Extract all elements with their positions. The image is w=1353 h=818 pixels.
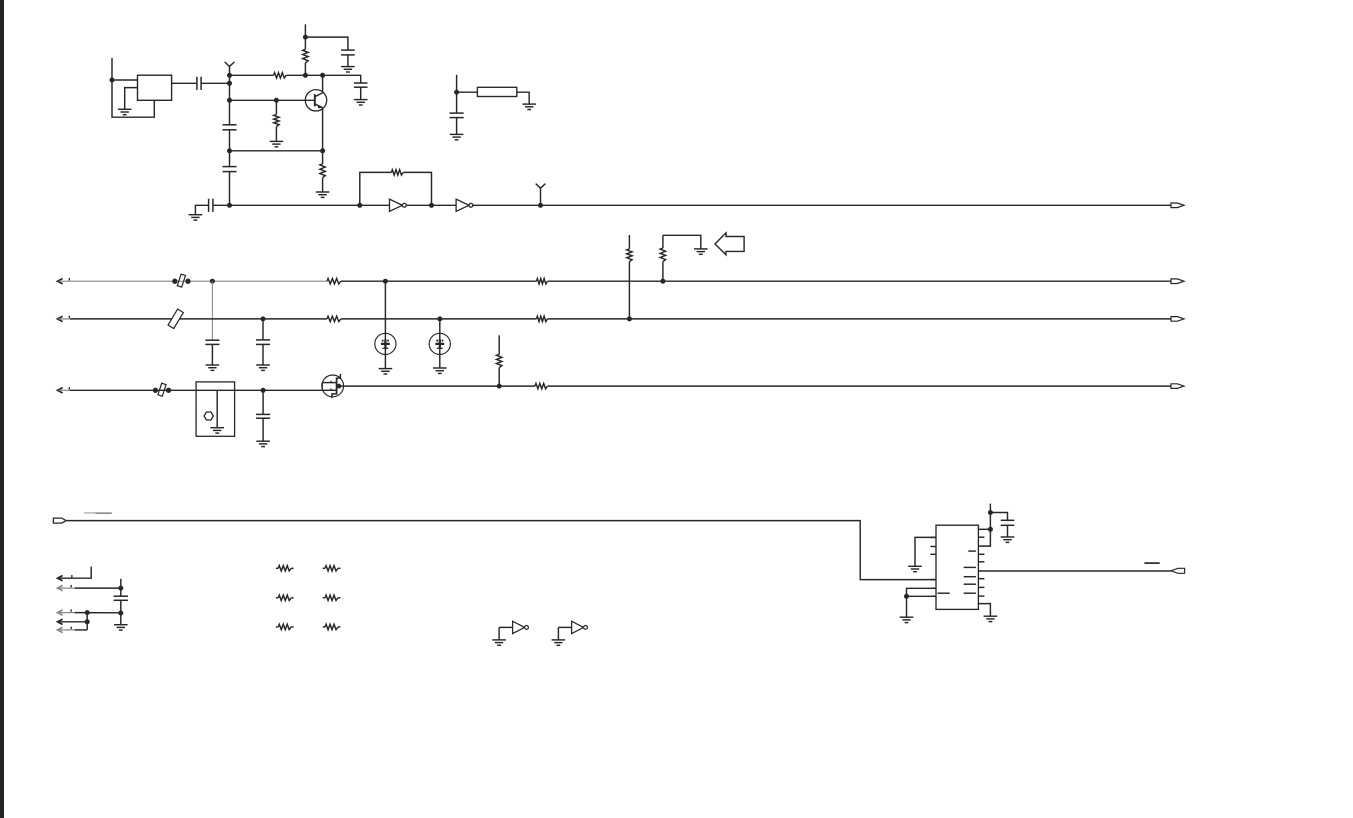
diode CR1 (tilted) bbox=[168, 309, 183, 328]
pin stub bbox=[930, 553, 936, 555]
wire bbox=[120, 600, 122, 624]
connector P6 bbox=[1171, 568, 1185, 573]
ground bbox=[908, 566, 922, 571]
resistor R7 bbox=[627, 249, 632, 262]
pin stub bbox=[930, 546, 936, 548]
connector arrow bbox=[58, 576, 63, 581]
ground bbox=[694, 249, 708, 254]
resistor R16 bbox=[276, 626, 278, 628]
inverter U3A bbox=[492, 640, 506, 645]
wire bbox=[211, 344, 213, 365]
wire bbox=[1007, 525, 1009, 537]
wire bbox=[907, 595, 937, 597]
arrow symbol bbox=[715, 233, 744, 255]
wire bbox=[990, 513, 1007, 521]
wire bbox=[59, 567, 92, 579]
node bbox=[357, 203, 362, 208]
connector P1 bbox=[1171, 203, 1184, 208]
node bbox=[227, 203, 232, 208]
label (greeked) bbox=[84, 512, 95, 514]
node bbox=[627, 316, 632, 321]
wire bbox=[275, 127, 277, 142]
node bbox=[437, 316, 442, 321]
tick mark bbox=[69, 387, 70, 389]
pin marker bbox=[964, 576, 976, 578]
filter FL1 bbox=[477, 87, 516, 96]
wire bbox=[262, 344, 264, 365]
wire bbox=[548, 385, 1171, 387]
resistor R6B bbox=[537, 279, 548, 284]
ground bbox=[256, 365, 270, 370]
wire bbox=[262, 390, 264, 414]
ground bbox=[118, 109, 132, 114]
node bbox=[303, 35, 308, 40]
pin marker bbox=[964, 566, 976, 568]
ground bbox=[522, 104, 536, 109]
wire bbox=[229, 130, 231, 167]
node bbox=[118, 586, 123, 591]
hexagon marker bbox=[204, 412, 213, 420]
pin stub bbox=[978, 561, 984, 563]
connector P5 bbox=[53, 518, 66, 523]
tick mark bbox=[71, 575, 72, 577]
wire bbox=[195, 205, 208, 214]
ground bbox=[341, 67, 355, 72]
inverter U3B bbox=[552, 640, 566, 645]
node bbox=[261, 316, 266, 321]
node bbox=[988, 527, 993, 532]
pin stub bbox=[978, 536, 984, 538]
ground bbox=[450, 134, 464, 139]
ground bbox=[114, 625, 128, 630]
wire bbox=[59, 629, 75, 631]
wire bbox=[323, 75, 361, 83]
wire bbox=[229, 172, 231, 206]
capacitor C4 bbox=[341, 50, 355, 55]
wire bbox=[498, 335, 500, 354]
wire bbox=[67, 521, 936, 580]
wire bbox=[262, 418, 264, 441]
wire bbox=[548, 318, 1172, 320]
connector arrow bbox=[58, 627, 63, 632]
crystal X1 bbox=[138, 75, 172, 100]
ground bbox=[210, 428, 224, 433]
wire bbox=[286, 74, 322, 76]
wire bbox=[406, 204, 456, 206]
connector P4 bbox=[1171, 384, 1184, 389]
connector P3 bbox=[1171, 317, 1184, 322]
wire bbox=[456, 75, 458, 113]
IC U2 body bbox=[936, 525, 978, 609]
ground bbox=[256, 441, 270, 446]
wire bbox=[275, 100, 277, 114]
capacitor C8 bbox=[256, 340, 270, 345]
wire bbox=[59, 621, 88, 623]
capacitor C11 bbox=[114, 596, 128, 600]
pin stub bbox=[930, 579, 936, 581]
wire bbox=[112, 58, 154, 117]
capacitor C10 bbox=[1001, 520, 1015, 525]
ground bbox=[433, 368, 447, 373]
wire bbox=[322, 151, 324, 164]
wire bbox=[498, 368, 500, 387]
node bbox=[227, 148, 232, 153]
transistor Q2 bbox=[322, 375, 344, 397]
resistor R3 bbox=[274, 115, 279, 127]
resistor R14 bbox=[276, 597, 278, 599]
node bbox=[320, 73, 325, 78]
capacitor C3 bbox=[222, 167, 236, 172]
pin marker bbox=[938, 592, 950, 594]
wire bbox=[59, 280, 328, 282]
capacitor C5 bbox=[354, 83, 368, 87]
node bbox=[320, 148, 325, 153]
wire bbox=[59, 612, 75, 614]
capacitor C2 bbox=[222, 125, 236, 130]
wire bbox=[360, 172, 392, 205]
connector arrow bbox=[58, 388, 63, 393]
wire bbox=[322, 178, 324, 192]
connector arrow bbox=[58, 316, 63, 321]
wire bbox=[75, 629, 88, 631]
resistor R6 bbox=[327, 279, 341, 284]
connector arrow bbox=[58, 619, 63, 624]
wire bbox=[322, 108, 324, 151]
wire bbox=[457, 91, 478, 93]
resistor R17 bbox=[323, 626, 325, 628]
wire bbox=[304, 63, 306, 76]
node bbox=[904, 594, 909, 599]
pin stub bbox=[978, 595, 984, 597]
fuse F2 bbox=[158, 383, 166, 396]
pin marker bbox=[964, 592, 976, 594]
wire bbox=[211, 281, 213, 340]
capacitor C7 bbox=[205, 340, 219, 344]
pin marker bbox=[964, 583, 976, 585]
wire bbox=[305, 37, 348, 50]
antenna Y2 bbox=[540, 188, 542, 205]
wire bbox=[230, 99, 315, 101]
resistor R9 bbox=[327, 316, 341, 321]
wire bbox=[70, 389, 322, 391]
capacitor C12 bbox=[450, 113, 464, 118]
ground bbox=[379, 369, 393, 374]
pin stub bbox=[978, 578, 984, 580]
capacitor C6 bbox=[209, 199, 213, 212]
wire bbox=[304, 24, 306, 49]
trimmer VC2 bbox=[429, 333, 450, 354]
node bbox=[497, 384, 502, 389]
connector arrow bbox=[58, 610, 63, 615]
wire bbox=[628, 262, 630, 319]
ground bbox=[900, 617, 914, 622]
wire bbox=[262, 319, 264, 340]
wire bbox=[439, 319, 441, 368]
wire bbox=[360, 87, 362, 99]
node bbox=[988, 510, 993, 515]
node bbox=[227, 98, 232, 103]
resistor R2 bbox=[303, 49, 308, 63]
wire bbox=[70, 318, 327, 320]
wire bbox=[906, 596, 908, 617]
tick mark bbox=[69, 278, 70, 280]
resistor R15 bbox=[323, 597, 325, 599]
wire bbox=[213, 204, 360, 206]
relay K1 box bbox=[196, 382, 235, 436]
antenna Y1 bbox=[229, 67, 231, 76]
wire bbox=[322, 75, 324, 93]
resistor R10 bbox=[535, 383, 548, 388]
wire bbox=[663, 235, 701, 249]
wire bbox=[978, 529, 990, 546]
wire bbox=[112, 79, 138, 81]
resistor R8 bbox=[660, 248, 665, 262]
pin stub bbox=[978, 553, 984, 555]
resistor R1 bbox=[274, 73, 287, 78]
wire bbox=[662, 235, 664, 248]
wire bbox=[229, 75, 231, 125]
wire bbox=[86, 613, 88, 630]
ground bbox=[270, 141, 284, 146]
wire bbox=[989, 504, 991, 530]
wire bbox=[59, 389, 71, 391]
pin stub bbox=[978, 586, 984, 588]
node bbox=[118, 611, 123, 616]
ground bbox=[206, 365, 220, 370]
wire bbox=[75, 612, 121, 614]
wire bbox=[978, 604, 990, 617]
node bbox=[85, 610, 90, 615]
wire bbox=[456, 118, 458, 135]
resistor R4 bbox=[320, 164, 325, 178]
capacitor C9 bbox=[256, 414, 270, 418]
label (greeked) bbox=[1144, 562, 1159, 564]
wire bbox=[341, 318, 537, 320]
tick mark bbox=[71, 585, 72, 587]
node bbox=[227, 81, 232, 86]
wire bbox=[662, 262, 664, 282]
node bbox=[454, 90, 459, 95]
wire bbox=[120, 579, 122, 596]
transistor Q1 bbox=[305, 90, 326, 111]
node bbox=[210, 279, 215, 284]
wire bbox=[384, 281, 386, 368]
node bbox=[227, 73, 232, 78]
ground bbox=[1001, 537, 1015, 542]
resistor R9B bbox=[537, 316, 548, 321]
wire bbox=[75, 587, 121, 589]
ground bbox=[984, 616, 998, 621]
wire bbox=[347, 55, 349, 67]
wire bbox=[403, 172, 431, 205]
wire bbox=[59, 587, 75, 589]
wire bbox=[978, 528, 990, 530]
pin stub bbox=[930, 595, 936, 597]
wire bbox=[548, 280, 1172, 282]
node bbox=[274, 98, 279, 103]
wire bbox=[230, 74, 274, 76]
node bbox=[303, 73, 308, 78]
ground bbox=[189, 215, 203, 220]
capacitor C1 bbox=[197, 77, 201, 90]
wire bbox=[216, 390, 218, 427]
inverter U1B bbox=[456, 199, 469, 211]
connector arrow bbox=[58, 585, 63, 590]
wire bbox=[230, 150, 323, 152]
wire bbox=[360, 204, 390, 206]
node bbox=[429, 203, 434, 208]
pin marker bbox=[968, 550, 976, 552]
node bbox=[261, 388, 266, 393]
wire bbox=[517, 92, 529, 104]
tick mark bbox=[71, 609, 72, 611]
border bar (page edge) bbox=[0, 0, 4, 818]
resistor R12 bbox=[276, 567, 278, 569]
fuse F1 bbox=[177, 274, 185, 287]
wire bbox=[915, 537, 936, 566]
wire bbox=[339, 385, 535, 387]
node bbox=[660, 279, 665, 284]
wire bbox=[978, 570, 1171, 572]
node bbox=[383, 279, 388, 284]
inverter U1A bbox=[390, 199, 403, 211]
resistor R13 bbox=[323, 567, 325, 569]
trimmer VC1 bbox=[375, 333, 396, 354]
node (crystal pin1 junction) bbox=[110, 78, 115, 83]
pin stub bbox=[930, 536, 936, 538]
wire bbox=[201, 82, 229, 84]
ground bbox=[354, 100, 368, 105]
connector arrow bbox=[58, 279, 63, 284]
connector P2 bbox=[1171, 279, 1184, 284]
wire bbox=[59, 318, 71, 320]
wire bbox=[473, 204, 1171, 206]
tick mark bbox=[71, 627, 72, 629]
pin stub bbox=[930, 587, 936, 589]
wire bbox=[125, 88, 138, 110]
node bbox=[538, 203, 543, 208]
resistor R5 bbox=[391, 170, 403, 175]
tick mark bbox=[69, 316, 70, 318]
wire bbox=[172, 82, 197, 84]
wire bbox=[341, 280, 537, 282]
resistor R11 bbox=[497, 354, 502, 367]
wire bbox=[907, 588, 937, 596]
wire bbox=[628, 235, 630, 249]
ground bbox=[316, 192, 330, 197]
node bbox=[85, 619, 90, 624]
